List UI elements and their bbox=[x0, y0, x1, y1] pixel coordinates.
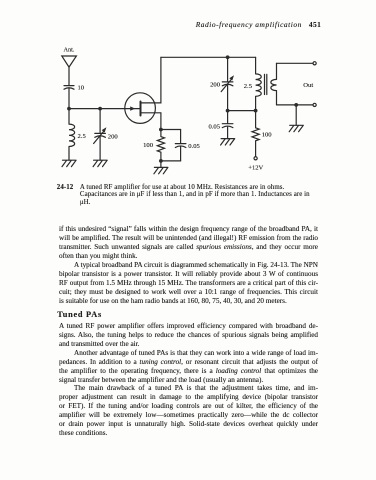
node C junction bbox=[226, 55, 230, 59]
running head bbox=[0, 20, 321, 29]
svg-text:200: 200 bbox=[108, 133, 119, 140]
svg-text:200: 200 bbox=[210, 81, 221, 88]
svg-text:2.5: 2.5 bbox=[244, 83, 253, 90]
wire emitter lead bbox=[141, 113, 161, 130]
terminal Out bottom bbox=[313, 103, 316, 106]
svg-text:0.05: 0.05 bbox=[208, 123, 220, 130]
body text bbox=[59, 225, 318, 306]
node G junction (emitter) bbox=[159, 128, 163, 132]
wire emitter RC top bbox=[161, 129, 181, 131]
wire node D to C4 bbox=[227, 111, 229, 124]
wire secondary bottom to Out bbox=[277, 104, 314, 106]
wire node D to transformer primary bottom bbox=[228, 110, 256, 112]
svg-text:100: 100 bbox=[143, 142, 154, 149]
capacitor C5 value 0.05 (emitter bypass) bbox=[175, 130, 186, 161]
ground (C4) bbox=[221, 139, 235, 145]
node F junction bbox=[294, 103, 298, 107]
svg-text:100: 100 bbox=[262, 132, 273, 139]
wire emitter RC bottom bbox=[161, 160, 181, 162]
terminal +12V bbox=[254, 157, 257, 160]
svg-text:+12V: +12V bbox=[248, 165, 263, 172]
transistor Q1 bbox=[125, 93, 156, 124]
variable capacitor C2 value 200 bbox=[95, 133, 106, 137]
variable capacitor C3 value 200 bbox=[222, 82, 233, 86]
svg-text:0.05: 0.05 bbox=[188, 143, 200, 150]
resistor R2 value 100 (emitter) bbox=[157, 130, 164, 161]
wire C3 to node D bbox=[227, 85, 229, 110]
transformer T1 secondary bbox=[271, 63, 277, 105]
svg-text:Ant.: Ant. bbox=[63, 47, 74, 54]
figure caption bbox=[57, 184, 313, 207]
svg-text:Out: Out bbox=[303, 82, 313, 89]
ground (C2) bbox=[93, 160, 107, 166]
wire collector top net bbox=[161, 56, 256, 58]
svg-text:2.5: 2.5 bbox=[78, 133, 87, 140]
wire C4 to ground bbox=[227, 127, 229, 139]
node E junction bbox=[254, 109, 258, 113]
wire secondary top to Out bbox=[277, 62, 314, 64]
terminal Out top bbox=[313, 62, 316, 65]
node H junction bbox=[159, 159, 163, 163]
inductor L1 value 2.5 bbox=[69, 109, 75, 161]
svg-text:10: 10 bbox=[78, 84, 85, 91]
wire antenna to C1 bbox=[68, 67, 70, 85]
wire node H to ground bbox=[160, 161, 162, 168]
transformer T1 core bbox=[265, 74, 267, 94]
capacitor C4 value 0.05 bbox=[222, 124, 233, 128]
capacitor C1 value 10 bbox=[64, 86, 74, 90]
resistor R1 value 100 (collector supply) bbox=[252, 111, 259, 157]
wire node B to C2 bbox=[99, 109, 101, 134]
wire main horizontal input net bbox=[69, 108, 141, 110]
node D junction bbox=[226, 109, 230, 113]
wire node C to C3 bbox=[227, 57, 229, 81]
wire node F to ground bbox=[295, 105, 297, 125]
ground (output) bbox=[289, 125, 303, 131]
transformer T1 primary value 2.5 bbox=[256, 57, 262, 110]
node B junction bbox=[98, 107, 102, 111]
wire C1 to node A bbox=[68, 89, 70, 109]
wire C2 to ground bbox=[99, 137, 101, 160]
ground (inductor L1) bbox=[62, 160, 76, 166]
antenna symbol bbox=[62, 56, 77, 67]
node A junction bbox=[67, 107, 71, 111]
wire collector lead bbox=[141, 57, 161, 103]
ground (emitter) bbox=[154, 167, 168, 173]
